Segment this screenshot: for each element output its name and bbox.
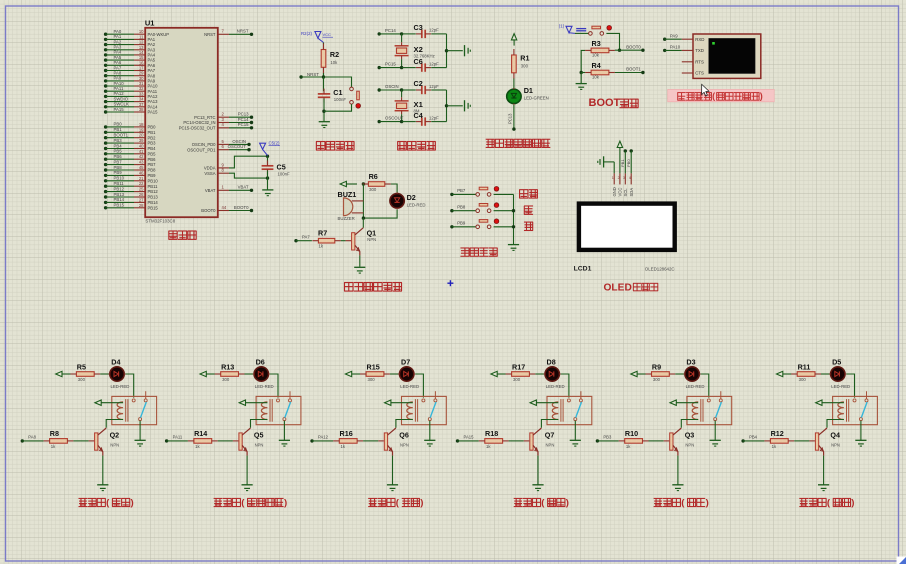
push button BOOT <box>589 26 612 36</box>
svg-text:R2(2): R2(2) <box>301 31 313 36</box>
resistor R13 300 <box>215 362 245 382</box>
wire coil bottom to collector <box>396 420 413 428</box>
svg-text:C5(2): C5(2) <box>269 141 281 146</box>
svg-text:PB4: PB4 <box>114 143 123 148</box>
svg-text:SDA: SDA <box>629 188 634 197</box>
wire R16 to Q6 <box>363 440 378 442</box>
node OSCOUT / chip pin 6 <box>187 144 251 152</box>
svg-text:Q5: Q5 <box>254 430 264 439</box>
svg-text:100nF: 100nF <box>278 172 291 177</box>
node PB7 / pin 43 wire <box>104 159 156 167</box>
svg-text:BOOT0: BOOT0 <box>626 44 641 49</box>
svg-text:TXD: TXD <box>695 48 704 53</box>
node PB12 / pin 25 wire <box>104 186 159 194</box>
svg-text:12pF: 12pF <box>429 115 439 120</box>
junction OSCIN to crystal <box>400 88 403 91</box>
node PA3 / pin 13 wire <box>104 45 156 53</box>
svg-text:NPN: NPN <box>255 442 264 447</box>
node NRST <box>299 72 323 79</box>
svg-text:Q6: Q6 <box>399 430 409 439</box>
node SWCLK / pin 37 wire <box>104 102 158 110</box>
wire coil bottom to collector <box>681 420 698 428</box>
ground alarm <box>354 267 365 273</box>
power arrow R13 supply <box>200 371 215 376</box>
svg-text:1: 1 <box>612 176 614 180</box>
wire button common rail <box>513 194 515 244</box>
svg-text:): ) <box>566 497 569 508</box>
svg-text:NRST: NRST <box>237 29 249 34</box>
LED D2 LED-RED <box>390 192 426 209</box>
mouse cursor <box>702 84 709 96</box>
svg-text:12pF: 12pF <box>429 61 439 66</box>
junction rail PB9 <box>512 225 515 228</box>
ground Q3 emitter <box>672 485 683 491</box>
wire R6 to D2 <box>391 184 397 193</box>
svg-text:R5: R5 <box>77 362 86 371</box>
svg-text:LED-RED: LED-RED <box>400 384 419 389</box>
ground buttons <box>508 245 519 251</box>
transistor Q4 NPN <box>809 428 840 456</box>
ground relay contact <box>855 440 866 446</box>
node BOOT1 <box>615 67 645 75</box>
wire coil bottom to collector <box>251 420 268 428</box>
junction at C5 bottom <box>266 176 269 179</box>
svg-text:OSCOUT_PD1: OSCOUT_PD1 <box>187 147 216 152</box>
svg-text:25: 25 <box>139 187 144 192</box>
svg-text:28: 28 <box>139 203 144 208</box>
node PB5 / pin 41 wire <box>104 149 156 157</box>
wire supply down buzzer rail <box>362 184 364 218</box>
power flag C5(2) <box>260 141 280 156</box>
svg-text:BOOT1: BOOT1 <box>114 133 129 138</box>
power arrow D1 supply <box>511 34 516 40</box>
transistor Q3 NPN <box>664 428 695 456</box>
svg-text:PC15: PC15 <box>238 122 249 127</box>
node PA0 / pin 10 wire <box>104 29 169 37</box>
svg-text:NPN: NPN <box>400 442 409 447</box>
svg-text:LED-RED: LED-RED <box>831 384 850 389</box>
svg-text:PB14: PB14 <box>114 197 125 202</box>
svg-text:PB0: PB0 <box>626 159 631 167</box>
svg-text:R9: R9 <box>652 362 661 371</box>
junction PC15 to crystal <box>400 66 403 69</box>
diode D4 LED-RED <box>109 358 130 389</box>
node BOOT1 / pin 20 wire <box>104 133 156 141</box>
svg-text:R16: R16 <box>340 429 353 438</box>
wire button PB9 to rail <box>494 226 514 228</box>
svg-text:(1): (1) <box>559 24 565 29</box>
svg-text:PA12: PA12 <box>318 435 329 440</box>
LED D1 LED-GREEN <box>507 86 549 105</box>
svg-text:VCC: VCC <box>618 188 623 197</box>
OLED display LCD1 <box>574 204 675 273</box>
wire Q6 emitter to ground <box>392 456 394 485</box>
svg-text:D5: D5 <box>832 358 841 367</box>
wire R3 left leg <box>581 50 585 72</box>
svg-text:26: 26 <box>139 192 144 197</box>
wire rail to ground <box>447 105 463 107</box>
svg-text:PB6: PB6 <box>114 154 123 159</box>
node PA12 <box>310 435 333 443</box>
power arrow relay coil <box>239 400 267 405</box>
svg-text:10k: 10k <box>592 75 600 80</box>
wire relay pivot to ground <box>714 421 716 441</box>
svg-text:PB12: PB12 <box>148 189 159 194</box>
node PA11 <box>165 435 188 443</box>
node PA5 / pin 15 wire <box>104 55 156 63</box>
node VBAT / chip pin 1 <box>205 185 253 193</box>
ground Q5 emitter <box>242 485 253 491</box>
svg-text:PB9: PB9 <box>114 170 123 175</box>
svg-text:PB1: PB1 <box>114 127 123 132</box>
svg-text:R11: R11 <box>798 362 811 371</box>
wire R13 to D6 <box>245 373 255 375</box>
node PA15 / pin 38 wire <box>104 107 158 115</box>
node PB3 <box>596 435 619 443</box>
wire NRST node down to C1 <box>323 77 325 91</box>
label 继电器(排水) <box>514 497 569 508</box>
svg-text:R4: R4 <box>592 61 601 70</box>
svg-text:BOOT0: BOOT0 <box>201 208 216 213</box>
node PB11 / pin 22 wire <box>104 181 158 189</box>
svg-text:STM32F103C8: STM32F103C8 <box>145 219 175 224</box>
resistor R14 1k <box>188 429 218 449</box>
svg-text:SCL: SCL <box>623 188 628 197</box>
svg-text:38: 38 <box>139 107 144 112</box>
svg-text:21: 21 <box>139 176 144 181</box>
svg-text:12pF: 12pF <box>429 84 439 89</box>
node PC13 end <box>512 127 515 130</box>
wire C2 to rail <box>431 90 446 106</box>
svg-text:D2: D2 <box>407 193 416 202</box>
svg-text:): ) <box>284 497 287 508</box>
wire button to ground leg <box>324 104 352 111</box>
svg-text:NRST: NRST <box>307 72 319 77</box>
wire OSCOUT to cap <box>402 121 416 123</box>
resistor R16 1k <box>333 429 363 449</box>
resistor R2 10k <box>321 43 339 74</box>
power flag R2(2) <box>301 31 333 42</box>
ground relay contact <box>710 440 721 446</box>
push button reset <box>350 87 361 108</box>
svg-text:PB13: PB13 <box>148 195 159 200</box>
junction at C5 top <box>266 155 269 158</box>
junction buzzer bottom <box>362 216 365 219</box>
wire button to BOOT0 junction <box>606 33 619 50</box>
svg-text:VCC: VCC <box>323 32 332 37</box>
transistor Q1 NPN <box>346 228 377 256</box>
svg-text:PA7: PA7 <box>302 235 310 240</box>
node PA4 / pin 14 wire <box>104 50 156 58</box>
node PA8 / pin 29 wire <box>104 71 156 79</box>
label 加 <box>524 206 533 214</box>
label 继电器(烘干) <box>654 497 709 508</box>
svg-text:PC15: PC15 <box>385 62 396 67</box>
svg-text:10k: 10k <box>592 53 600 58</box>
wire R15 to D7 <box>390 373 400 375</box>
node PA7 / pin 17 wire <box>104 65 156 73</box>
diode D3 LED-RED <box>684 358 705 389</box>
svg-text:PB11: PB11 <box>114 181 125 186</box>
svg-text:R7: R7 <box>318 229 327 238</box>
wire collector <box>362 218 364 228</box>
power arrow R15 supply <box>345 371 360 376</box>
wire D4 to relay contact <box>126 374 134 398</box>
transistor Q5 NPN <box>233 428 264 456</box>
wire relay pivot to ground <box>429 421 431 441</box>
svg-text:C1: C1 <box>333 88 342 97</box>
svg-text:LCD1: LCD1 <box>574 265 592 272</box>
svg-text:R3: R3 <box>592 39 601 48</box>
node PA9 <box>663 33 682 41</box>
wire R9 to D3 <box>675 373 685 375</box>
svg-text:): ) <box>420 497 423 508</box>
junction R3-R4 BOOT0 <box>618 49 621 52</box>
diode D5 LED-RED <box>829 358 850 389</box>
node PC15 <box>378 62 402 70</box>
svg-text:PB8: PB8 <box>457 205 466 210</box>
svg-text:R10: R10 <box>625 429 638 438</box>
svg-text:PB9: PB9 <box>148 173 157 178</box>
wire Q1 emitter to ground <box>359 255 361 266</box>
power arrow R9 supply <box>631 371 646 376</box>
ground Q4 emitter <box>818 485 829 491</box>
svg-text:OLED: OLED <box>604 283 632 294</box>
wire R18 to Q7 <box>509 440 524 442</box>
label 程序运行指示灯 <box>486 139 551 147</box>
ground relay contact <box>424 440 435 446</box>
node PB0 SDA <box>626 149 633 173</box>
svg-text:R2: R2 <box>330 50 339 59</box>
wire coil bottom to collector <box>827 420 844 428</box>
wire button PB8 to rail <box>494 210 514 212</box>
wire to R1 <box>513 40 515 46</box>
wire D5 to relay contact <box>846 374 854 398</box>
svg-text:C4: C4 <box>414 111 423 120</box>
power arrow R11 supply <box>777 371 792 376</box>
wire D7 to relay contact <box>415 374 423 398</box>
svg-text:D3: D3 <box>686 358 695 367</box>
wire C4 to rail <box>431 106 446 122</box>
svg-text:20: 20 <box>139 133 144 138</box>
node PA7 <box>294 235 312 243</box>
wire R8 to Q2 <box>73 440 88 442</box>
push button PB9 <box>476 219 499 229</box>
svg-text:): ) <box>760 91 763 101</box>
svg-text:GND: GND <box>612 187 617 196</box>
svg-text:RXD: RXD <box>695 37 704 42</box>
resistor R5 300 <box>70 362 100 382</box>
svg-text:LED-RED: LED-RED <box>546 384 565 389</box>
svg-text:10k: 10k <box>330 60 338 65</box>
junction crystal rail <box>445 104 448 107</box>
power arrow OLED VCC <box>617 141 622 173</box>
svg-text:300: 300 <box>78 377 86 382</box>
origin marker blue cross <box>447 280 453 286</box>
node PA15 <box>456 435 479 443</box>
svg-text:VBAT: VBAT <box>205 188 216 193</box>
capacitor C4 12pF <box>414 111 440 126</box>
svg-text:D4: D4 <box>111 358 120 367</box>
node PA10 <box>663 45 682 53</box>
node PC14 <box>378 28 402 36</box>
buzzer BUZ1 <box>338 190 364 221</box>
power arrow relay coil <box>385 400 413 405</box>
svg-text:PB12: PB12 <box>114 186 125 191</box>
wire R12 to Q4 <box>794 440 809 442</box>
label 复位电路 <box>316 142 354 151</box>
power arrow relay coil <box>530 400 558 405</box>
wire R7 to Q1 <box>341 240 346 242</box>
svg-text:PB1: PB1 <box>148 130 157 135</box>
wire C6 to rail <box>431 51 446 68</box>
svg-text:PB5: PB5 <box>148 151 157 156</box>
svg-text:BOOT0: BOOT0 <box>234 205 249 210</box>
push button PB8 <box>476 203 499 213</box>
ground OLED GND pin <box>598 156 614 173</box>
svg-text:Q3: Q3 <box>685 430 695 439</box>
wire PC14 to cap <box>402 33 416 35</box>
power arrow R5 supply <box>56 371 71 376</box>
svg-text:LED-RED: LED-RED <box>255 384 274 389</box>
resistor R15 300 <box>360 362 390 382</box>
svg-text:300: 300 <box>222 377 230 382</box>
svg-text:PC15-OSC32_OUT: PC15-OSC32_OUT <box>179 125 216 130</box>
wire R2 to NRST node <box>323 73 325 77</box>
svg-text:22: 22 <box>139 181 144 186</box>
junction R4 left <box>580 71 583 74</box>
svg-text:300: 300 <box>653 377 661 382</box>
capacitor C6 12pF <box>414 57 440 72</box>
push button PB7 <box>476 187 499 197</box>
resistor R6 300 <box>362 172 390 192</box>
node PB15 / pin 28 wire <box>104 203 159 211</box>
resistor R9 300 <box>646 362 676 382</box>
svg-text:PB3: PB3 <box>148 141 157 146</box>
wire button PB7 to rail <box>494 193 514 195</box>
ground Q7 emitter <box>532 485 543 491</box>
svg-text:46: 46 <box>139 170 144 175</box>
node BOOT0 <box>615 44 645 52</box>
svg-text:27: 27 <box>139 197 144 202</box>
svg-text:12pF: 12pF <box>429 28 439 33</box>
wire relay pivot to ground <box>283 421 285 441</box>
svg-text:): ) <box>706 497 709 508</box>
svg-text:LED-GREEN: LED-GREEN <box>524 95 549 100</box>
ground relay contact <box>570 440 581 446</box>
ground reset circuit <box>319 122 330 128</box>
svg-text:PB9: PB9 <box>457 221 466 226</box>
svg-text:42: 42 <box>139 154 144 159</box>
svg-text:PB11: PB11 <box>148 184 159 189</box>
ground BOOT <box>576 84 587 90</box>
power arrow alarm supply <box>340 181 357 186</box>
wire Q5 emitter to ground <box>246 456 248 485</box>
svg-text:OSCIN_PD0: OSCIN_PD0 <box>192 142 216 147</box>
wire relay pivot to ground <box>139 421 141 441</box>
node PB1 SCL <box>620 149 627 173</box>
label 继电器(消毒) <box>799 497 854 508</box>
svg-text:C6: C6 <box>414 57 423 66</box>
wire R14 to Q5 <box>218 440 233 442</box>
junction rail PB8 <box>512 209 515 212</box>
node PB1 / pin 19 wire <box>104 127 156 135</box>
label BOOT电路 <box>589 97 639 109</box>
svg-text:VBAT: VBAT <box>238 185 249 190</box>
svg-text:PB8: PB8 <box>114 165 123 170</box>
svg-text:NPN: NPN <box>546 442 555 447</box>
page corner <box>897 557 906 564</box>
svg-text:300: 300 <box>369 187 377 192</box>
node PB4 / pin 40 wire <box>104 143 156 151</box>
relay RL3 <box>687 391 732 424</box>
svg-text:): ) <box>131 497 134 508</box>
svg-text:R12: R12 <box>771 429 784 438</box>
pin GND stub <box>612 173 617 196</box>
power arrow relay coil <box>670 400 698 405</box>
ground relay contact <box>135 440 146 446</box>
relay RL6 <box>402 391 447 424</box>
node PC13 / chip pin 2 <box>194 112 253 120</box>
resistor R4 10k <box>585 61 615 80</box>
svg-text:LED-RED: LED-RED <box>686 384 705 389</box>
wire Q3 emitter to ground <box>677 456 679 485</box>
pin numbers 1 2 3 4 <box>612 176 631 180</box>
relay RL4 <box>833 391 878 424</box>
resistor R17 300 <box>506 362 536 382</box>
diode D7 LED-RED <box>398 358 419 389</box>
svg-text:R14: R14 <box>194 429 207 438</box>
node PA8 <box>21 435 44 443</box>
svg-text:PB7: PB7 <box>148 162 157 167</box>
node PC15 / chip pin 4 <box>179 122 253 130</box>
wire NRST to button <box>324 77 352 87</box>
wire Q2 emitter to ground <box>102 456 104 485</box>
svg-text:BUZZER: BUZZER <box>338 216 355 221</box>
svg-text:NPN: NPN <box>110 442 119 447</box>
svg-text:D1: D1 <box>524 86 533 95</box>
svg-text:D7: D7 <box>401 358 410 367</box>
wire D6 to relay contact <box>270 374 278 398</box>
svg-text:PC13: PC13 <box>238 112 249 117</box>
resistor R10 1k <box>619 429 649 449</box>
ground relay contact <box>279 440 290 446</box>
relay RL5 <box>256 391 301 424</box>
svg-text:300: 300 <box>799 377 807 382</box>
wire Q4 emitter to ground <box>823 456 825 485</box>
svg-text:(: ( <box>712 91 715 101</box>
svg-text:OSCIN: OSCIN <box>232 139 246 144</box>
svg-text:R15: R15 <box>367 362 380 371</box>
diode D6 LED-RED <box>253 358 274 389</box>
svg-text:PA15: PA15 <box>148 110 159 115</box>
svg-text:PC14: PC14 <box>238 117 249 122</box>
svg-text:BOOT: BOOT <box>589 97 621 109</box>
svg-text:PB5: PB5 <box>114 149 123 154</box>
resistor R12 1k <box>764 429 794 449</box>
label 减 <box>524 222 533 230</box>
label 继电器(清洗) <box>368 497 423 508</box>
wire PC15 to cap <box>402 67 416 69</box>
crystal X2 <box>395 34 435 68</box>
svg-text:PB3: PB3 <box>114 138 123 143</box>
resistor R11 300 <box>791 362 821 382</box>
svg-text:PB8: PB8 <box>148 168 157 173</box>
resistor R3 10k <box>585 39 615 58</box>
resistor R7 1k <box>312 229 340 249</box>
node PA11 / pin 32 wire <box>104 86 158 94</box>
svg-text:PB7: PB7 <box>114 159 123 164</box>
